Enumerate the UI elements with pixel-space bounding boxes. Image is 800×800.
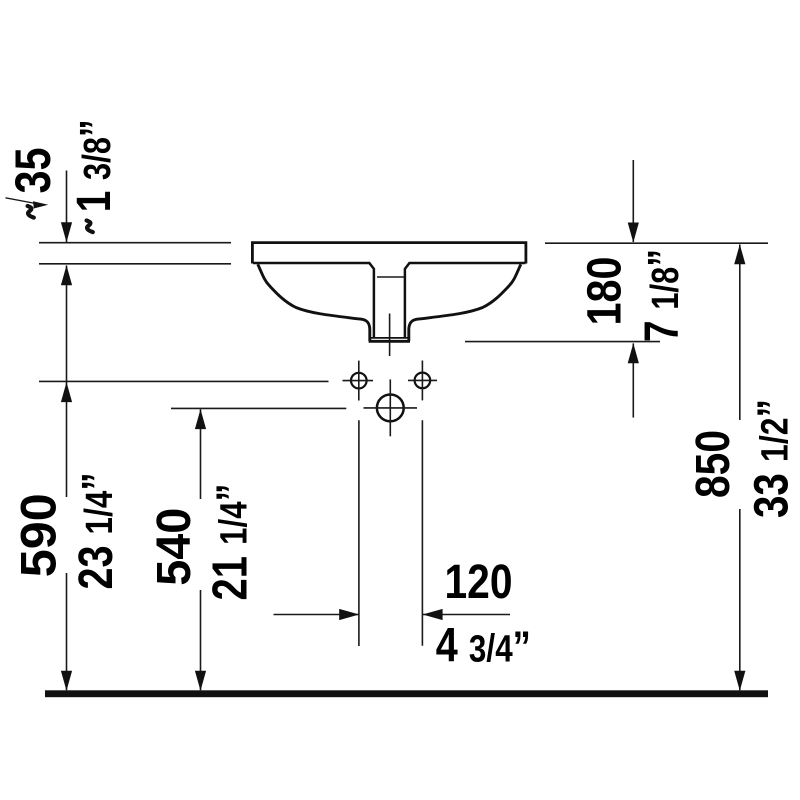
svg-text:180: 180 bbox=[579, 257, 632, 326]
svg-text:590: 590 bbox=[11, 493, 67, 577]
svg-text:35: 35 bbox=[5, 148, 61, 194]
svg-text:850: 850 bbox=[687, 430, 740, 498]
svg-text:120: 120 bbox=[445, 556, 513, 609]
svg-text:540: 540 bbox=[148, 508, 201, 586]
